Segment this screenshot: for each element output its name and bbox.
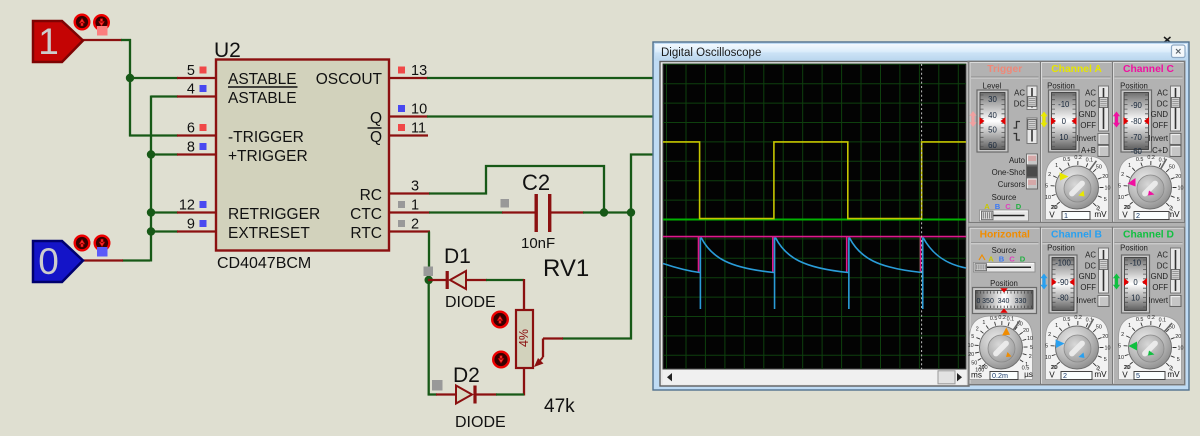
svg-text:12: 12: [179, 198, 195, 214]
svg-text:5: 5: [187, 63, 195, 79]
svg-text:DIODE: DIODE: [455, 414, 506, 431]
svg-text:0: 0: [977, 298, 981, 305]
svg-text:50: 50: [1096, 324, 1102, 330]
svg-text:-TRIGGER: -TRIGGER: [228, 129, 304, 146]
svg-text:CTC: CTC: [350, 206, 382, 223]
wire: junction up to oscilloscope input: [631, 155, 656, 214]
wire: D2 cathode to RV1 bottom: [496, 393, 524, 395]
svg-text:10: 10: [1105, 346, 1111, 352]
wire: pin 2 RTC down to diode network: [389, 232, 437, 396]
svg-text:2: 2: [1136, 211, 1140, 220]
svg-text:0.5: 0.5: [1136, 157, 1144, 163]
svg-text:Channel C: Channel C: [1123, 64, 1174, 75]
svg-text:AC: AC: [1085, 89, 1096, 98]
actuator: RV1 decrease button: [493, 352, 509, 368]
svg-text:0.1: 0.1: [1086, 158, 1094, 164]
svg-text:Channel B: Channel B: [1051, 230, 1102, 241]
svg-text:2: 2: [1063, 371, 1067, 380]
svg-text:0.5: 0.5: [1136, 317, 1144, 323]
node: junction pin 8: [147, 150, 155, 158]
svg-text:3: 3: [411, 179, 419, 195]
svg-text:Horizontal: Horizontal: [980, 230, 1030, 241]
svg-text:0.2: 0.2: [1147, 315, 1155, 321]
svg-text:0.2: 0.2: [1147, 155, 1155, 161]
node: junction at logic-1 vertical / pin 5 branch: [126, 74, 134, 82]
wire: pin 13 OSCOUT to oscilloscope: [389, 77, 656, 79]
svg-text:6: 6: [187, 121, 195, 137]
svg-text:OFF: OFF: [1080, 121, 1096, 130]
svg-text:AC: AC: [1014, 89, 1025, 98]
svg-text:1: 1: [1128, 323, 1131, 329]
wire: logic 1 output net: [82, 39, 131, 137]
svg-text:20: 20: [1175, 174, 1181, 180]
wire: D1 to RV1 top: [486, 279, 524, 281]
svg-text:350: 350: [982, 298, 994, 305]
svg-text:CD4047BCM: CD4047BCM: [217, 255, 311, 272]
svg-text:Invert: Invert: [1077, 134, 1097, 143]
diode D2: [436, 364, 506, 431]
svg-text:5: 5: [1118, 183, 1121, 189]
svg-text:OSCOUT: OSCOUT: [316, 71, 383, 88]
svg-text:RETRIGGER: RETRIGGER: [228, 206, 320, 223]
svg-text:0.2: 0.2: [1074, 315, 1082, 321]
svg-text:1: 1: [1128, 163, 1131, 169]
svg-text:1: 1: [38, 21, 59, 62]
svg-text:0.5: 0.5: [1063, 157, 1071, 163]
wire: pin 1 CTC to C2 left: [389, 211, 503, 213]
svg-text:50: 50: [1169, 164, 1175, 170]
wire: to pin 5 ASTABLE: [130, 77, 178, 79]
svg-text:-70: -70: [1131, 133, 1143, 142]
actuator: logic 0 up button: [75, 236, 90, 251]
svg-text:DC: DC: [1085, 100, 1097, 109]
svg-text:2: 2: [1048, 332, 1051, 338]
marker: background X handle: [1164, 37, 1171, 43]
logic state 1 input: [33, 21, 83, 62]
svg-text:10: 10: [1059, 133, 1068, 142]
svg-text:5: 5: [1136, 371, 1140, 380]
svg-text:DC: DC: [1157, 100, 1169, 109]
svg-text:V: V: [1122, 211, 1128, 220]
svg-text:10: 10: [411, 102, 427, 118]
svg-text:20: 20: [1175, 334, 1181, 340]
svg-text:A+B: A+B: [1081, 146, 1096, 155]
svg-text:10: 10: [1045, 195, 1051, 201]
panel: Channel D: [1113, 227, 1185, 384]
wire: to pin 9 EXTRESET: [151, 230, 178, 232]
potentiometer RV1: [516, 255, 589, 417]
svg-text:Trigger: Trigger: [987, 64, 1022, 75]
actuator: logic 1 up button: [75, 15, 90, 30]
wire: to pin 8 +TRIGGER: [151, 153, 178, 155]
oscilloscope control panel: [968, 61, 1185, 385]
svg-text:RTC: RTC: [350, 225, 382, 242]
panel: Horizontal: [968, 227, 1041, 384]
wire: C2 right to junctions: [583, 211, 632, 213]
svg-text:Position: Position: [1047, 244, 1075, 253]
svg-text:4%: 4%: [517, 329, 531, 347]
svg-text:-60: -60: [1131, 147, 1143, 156]
svg-text:OFF: OFF: [1152, 283, 1168, 292]
svg-text:C2: C2: [522, 170, 550, 195]
svg-text:10: 10: [1118, 195, 1124, 201]
svg-text:1: 1: [1055, 163, 1058, 169]
svg-text:GND: GND: [1079, 272, 1097, 281]
svg-text:5: 5: [1030, 345, 1033, 351]
panel: Channel A: [1040, 62, 1112, 223]
svg-text:AC: AC: [1157, 89, 1168, 98]
svg-text:C+D: C+D: [1152, 146, 1168, 155]
svg-text:Invert: Invert: [1149, 134, 1169, 143]
marker: red state square under button: [97, 26, 108, 36]
panel: Trigger: [969, 62, 1041, 223]
svg-text:V: V: [1122, 371, 1128, 380]
panel: Channel C: [1113, 62, 1185, 223]
svg-text:340: 340: [998, 298, 1010, 305]
diode D1: [428, 245, 496, 311]
svg-text:0.5: 0.5: [990, 316, 998, 322]
svg-text:ms: ms: [971, 371, 982, 380]
svg-text:2: 2: [1121, 332, 1124, 338]
svg-text:Position: Position: [990, 279, 1018, 288]
svg-text:GND: GND: [1151, 110, 1169, 119]
actuator: logic 1 down button: [94, 15, 109, 30]
node: gray float markers: [424, 199, 510, 391]
svg-text:20: 20: [968, 352, 974, 358]
svg-text:Channel D: Channel D: [1123, 230, 1174, 241]
svg-text:5: 5: [1045, 343, 1048, 349]
svg-text:DC: DC: [1014, 100, 1026, 109]
node: junction D1 cathode: [425, 276, 433, 284]
wire: to pin 6 -TRIGGER: [129, 134, 178, 136]
svg-text:Digital Oscilloscope: Digital Oscilloscope: [661, 47, 761, 59]
svg-text:mV: mV: [1094, 370, 1107, 379]
svg-text:1: 1: [1055, 323, 1058, 329]
svg-text:-80: -80: [1057, 293, 1069, 302]
svg-text:-90: -90: [1057, 278, 1069, 287]
svg-text:Invert: Invert: [1149, 296, 1169, 305]
svg-text:-10: -10: [1130, 258, 1142, 267]
node: junction pin 9: [147, 227, 155, 235]
svg-text:GND: GND: [1151, 272, 1169, 281]
wire: junction down to RV1 wiper: [543, 212, 631, 357]
svg-text:1: 1: [982, 320, 985, 326]
svg-text:ASTABLE: ASTABLE: [228, 90, 297, 107]
trace: channel C magenta with spikes: [663, 237, 966, 273]
svg-text:RV1: RV1: [543, 255, 589, 282]
svg-text:0: 0: [1062, 117, 1067, 126]
svg-text:EXTRESET: EXTRESET: [228, 225, 310, 242]
svg-text:8: 8: [187, 140, 195, 156]
svg-text:D1: D1: [444, 245, 471, 268]
svg-text:10: 10: [1131, 293, 1140, 302]
svg-text:10: 10: [1045, 355, 1051, 361]
svg-text:2: 2: [1048, 172, 1051, 178]
svg-text:-90: -90: [1131, 101, 1143, 110]
svg-text:0.1: 0.1: [1159, 318, 1167, 324]
node: junction RC / CTC: [600, 208, 608, 216]
svg-text:5: 5: [1104, 197, 1107, 203]
svg-text:5: 5: [1177, 197, 1180, 203]
svg-text:0.2m: 0.2m: [992, 371, 1008, 380]
svg-text:AC: AC: [1085, 251, 1096, 260]
svg-text:mV: mV: [1167, 370, 1180, 379]
trace: channel D flat green: [663, 219, 966, 221]
svg-text:5: 5: [1045, 183, 1048, 189]
svg-text:0: 0: [1133, 278, 1138, 287]
svg-text:2: 2: [411, 217, 419, 233]
capacitor C2: [502, 170, 584, 252]
svg-text:Level: Level: [983, 82, 1002, 91]
svg-text:-100: -100: [1055, 258, 1071, 267]
pin numbers and logic-state squares of U2: [179, 63, 427, 233]
svg-text:5: 5: [1118, 343, 1121, 349]
svg-text:DC: DC: [1157, 262, 1169, 271]
svg-text:50: 50: [1096, 164, 1102, 170]
actuator: logic 0 down button: [95, 236, 110, 251]
wire: pin 11 Qbar stub: [389, 134, 428, 136]
svg-text:0.1: 0.1: [1007, 317, 1015, 323]
svg-text:+TRIGGER: +TRIGGER: [228, 148, 308, 165]
svg-text:13: 13: [411, 63, 427, 79]
svg-text:2: 2: [1121, 172, 1124, 178]
svg-text:0.2: 0.2: [998, 315, 1006, 321]
svg-text:0.5: 0.5: [1063, 317, 1071, 323]
panel: Channel B: [1040, 227, 1112, 384]
svg-text:mV: mV: [1094, 210, 1107, 219]
svg-text:50: 50: [988, 125, 997, 134]
node: junction to scope and RV1 wiper: [627, 208, 635, 216]
svg-text:Auto: Auto: [1009, 156, 1026, 165]
svg-text:Position: Position: [1047, 82, 1075, 91]
svg-text:V: V: [1049, 371, 1055, 380]
svg-text:Channel A: Channel A: [1051, 64, 1102, 75]
svg-text:9: 9: [187, 217, 195, 233]
actuator: RV1 increase button: [492, 312, 508, 328]
wire: pin 3 RC loop over C2: [389, 166, 604, 213]
oscilloscope window frame: [653, 42, 1189, 390]
svg-text:20: 20: [1102, 334, 1108, 340]
svg-text:5: 5: [971, 334, 974, 340]
oscilloscope screen: [660, 62, 969, 387]
svg-text:D2: D2: [453, 364, 480, 387]
svg-text:V: V: [1049, 211, 1055, 220]
svg-text:µs: µs: [1024, 370, 1033, 379]
svg-text:20: 20: [1023, 328, 1029, 334]
IC U2 CD4047BCM body: [214, 39, 389, 272]
trace: channel A yellow square wave: [663, 142, 966, 219]
svg-text:60: 60: [988, 141, 997, 150]
svg-text:47k: 47k: [544, 396, 575, 417]
svg-text:40: 40: [988, 111, 997, 120]
svg-text:U2: U2: [214, 39, 241, 62]
svg-text:2: 2: [1029, 354, 1032, 360]
svg-text:DC: DC: [1085, 262, 1097, 271]
svg-text:50: 50: [971, 360, 977, 366]
svg-text:10nF: 10nF: [521, 235, 555, 252]
svg-text:5: 5: [1104, 357, 1107, 363]
logic state 0 input: [33, 241, 83, 282]
scrollbar under screen: [663, 370, 966, 385]
svg-text:0: 0: [38, 241, 59, 282]
svg-text:10: 10: [1118, 355, 1124, 361]
svg-text:10: 10: [1105, 186, 1111, 192]
svg-text:4: 4: [187, 82, 195, 98]
svg-text:10: 10: [1178, 186, 1184, 192]
svg-text:1: 1: [1064, 211, 1068, 220]
svg-text:-80: -80: [1131, 117, 1143, 126]
svg-text:DIODE: DIODE: [445, 294, 496, 311]
svg-text:Position: Position: [1120, 244, 1148, 253]
svg-text:OFF: OFF: [1080, 283, 1096, 292]
svg-text:2: 2: [976, 326, 979, 332]
svg-text:Position: Position: [1120, 82, 1148, 91]
marker: blue state square under button: [97, 247, 108, 257]
svg-text:-10: -10: [1058, 100, 1070, 109]
wire: pin 10 Q to oscilloscope: [389, 115, 656, 117]
svg-text:GND: GND: [1079, 110, 1097, 119]
svg-text:Cursors: Cursors: [998, 180, 1025, 189]
svg-text:30: 30: [988, 95, 997, 104]
svg-text:10: 10: [1178, 346, 1184, 352]
svg-text:10: 10: [1027, 336, 1033, 342]
node: junction pin 12: [147, 208, 155, 216]
svg-text:Invert: Invert: [1077, 296, 1097, 305]
svg-text:10: 10: [968, 343, 974, 349]
svg-text:RC: RC: [360, 187, 382, 204]
svg-text:11: 11: [411, 121, 426, 137]
marker: cursor dashed line: [921, 64, 923, 369]
svg-text:5: 5: [1177, 357, 1180, 363]
svg-text:Q: Q: [370, 110, 382, 127]
svg-text:One-Shot: One-Shot: [992, 168, 1026, 177]
svg-text:330: 330: [1015, 298, 1027, 305]
svg-text:20: 20: [1102, 174, 1108, 180]
wire: pin stubs left side of U2: [177, 78, 217, 232]
wire: to pin 12 RETRIGGER: [151, 211, 178, 213]
svg-text:OFF: OFF: [1152, 121, 1168, 130]
svg-text:1: 1: [411, 198, 419, 214]
svg-text:AC: AC: [1157, 251, 1168, 260]
svg-text:0.2: 0.2: [1074, 155, 1082, 161]
svg-text:ASTABLE: ASTABLE: [228, 71, 297, 88]
trace: channel B cyan exponential: [663, 238, 966, 310]
svg-text:Source: Source: [992, 193, 1017, 202]
svg-text:Q: Q: [370, 129, 382, 146]
wire: pin 4 vertical bus down to logic 0: [82, 96, 178, 262]
